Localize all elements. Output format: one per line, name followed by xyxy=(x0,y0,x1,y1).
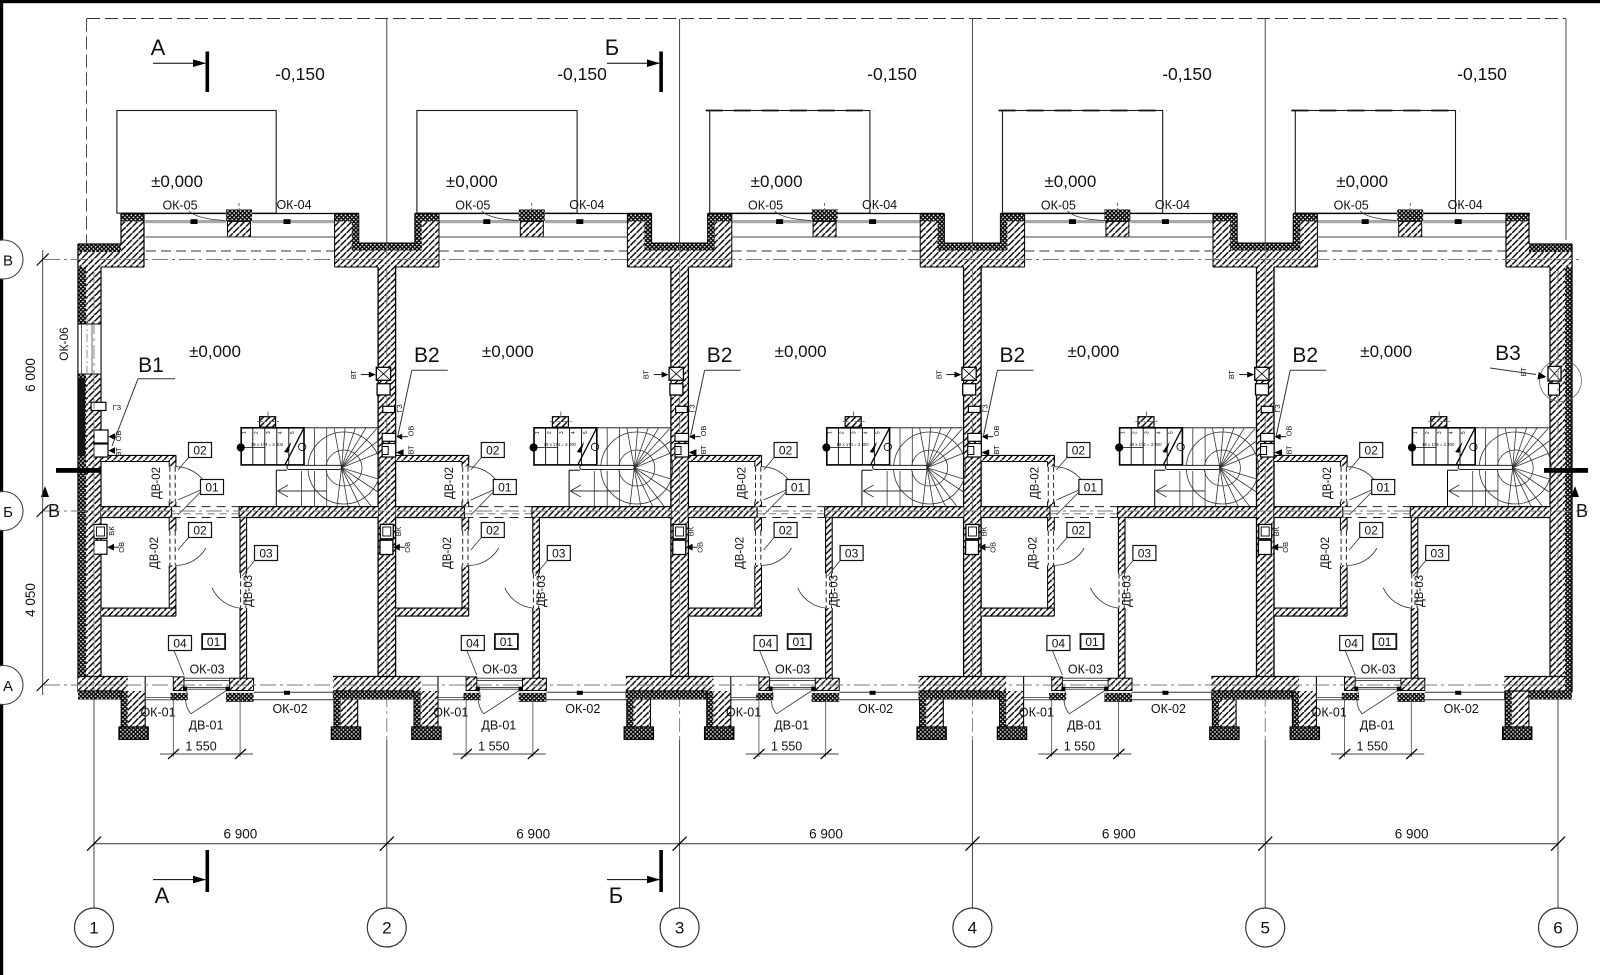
porch outline unit 5 xyxy=(1295,111,1455,214)
room box 01 upper unit 1 xyxy=(201,480,224,495)
middle wall axis Б left part unit 4 xyxy=(981,507,1050,518)
svg-text:01: 01 xyxy=(498,481,512,495)
svg-text:04: 04 xyxy=(1345,637,1359,651)
room box 01 upper unit 4 xyxy=(1079,480,1102,495)
svg-text:А: А xyxy=(3,678,13,695)
door DV-01 unit 2 xyxy=(477,686,523,688)
party wall pilaster court at axis 2 xyxy=(335,222,359,268)
party wall pilaster court at axis 4 xyxy=(920,222,944,268)
vent stack VT axis 5 xyxy=(1255,367,1269,380)
axis line 6 in wall xyxy=(1557,270,1559,694)
south wall insulation unit 1 xyxy=(78,692,121,700)
south wall segment left unit 4 xyxy=(919,677,1007,692)
svg-text:04: 04 xyxy=(466,637,480,651)
middle wall axis Б left part unit 2 xyxy=(396,507,465,518)
svg-text:02: 02 xyxy=(779,444,793,458)
south wall insulation unit 3 xyxy=(626,692,707,700)
svg-text:-0,150: -0,150 xyxy=(1457,64,1507,84)
south wall insulation unit 4 xyxy=(919,692,1000,700)
door DV-02 upper unit 2 xyxy=(462,467,464,502)
wc bottom wall unit 1 xyxy=(101,608,176,616)
room box 03 unit 3 xyxy=(840,546,863,561)
stair upper flight unit 1 xyxy=(241,428,304,465)
grid line 2 lower xyxy=(386,740,388,909)
svg-text:ОК-03: ОК-03 xyxy=(482,663,517,677)
grid line 3 lower xyxy=(679,740,681,909)
svg-text:2: 2 xyxy=(254,431,260,434)
svg-text:ОК-01: ОК-01 xyxy=(1312,706,1347,720)
svg-text:ДВ-02: ДВ-02 xyxy=(1027,537,1039,569)
room box 04 unit 1 xyxy=(169,636,192,651)
door DV-02 upper unit 5 xyxy=(1340,467,1342,502)
left wall vent VK xyxy=(94,524,107,538)
grid line 6 lower xyxy=(1557,694,1559,908)
south block right of door unit 5 xyxy=(1401,678,1425,690)
svg-text:ОК-05: ОК-05 xyxy=(1334,199,1369,213)
north wall outer face line xyxy=(121,213,335,215)
room box 02 upper unit 5 xyxy=(1360,443,1383,458)
vestibule wall line unit 4 xyxy=(1006,675,1051,677)
svg-text:1: 1 xyxy=(242,431,248,434)
eaves dashed line unit 3 xyxy=(732,250,921,252)
middle wall axis Б right part unit 2 xyxy=(532,507,671,518)
svg-text:ОК-05: ОК-05 xyxy=(1041,199,1076,213)
room box 02 upper unit 1 xyxy=(189,443,212,458)
party wall pilaster court at axis 5 xyxy=(1213,222,1237,268)
svg-text:3: 3 xyxy=(559,431,565,434)
party wall stem at axis 5 xyxy=(1257,267,1275,677)
grid line 1 lower xyxy=(93,694,95,908)
svg-text:2: 2 xyxy=(547,431,553,434)
svg-text:±0,000: ±0,000 xyxy=(482,342,534,361)
svg-text:2: 2 xyxy=(1132,431,1138,434)
door DV-01 unit 4 xyxy=(1062,686,1108,688)
room box 04 unit 2 xyxy=(461,636,484,651)
hall wall unit 2 xyxy=(533,518,540,574)
vent GZ axis 3 xyxy=(676,406,688,412)
svg-text:ОК-04: ОК-04 xyxy=(276,198,311,212)
svg-text:ОВ: ОВ xyxy=(696,542,705,553)
vent stack VT axis 4 xyxy=(962,367,976,380)
middle wall axis Б right part unit 4 xyxy=(1118,507,1257,518)
south wall segment left unit 3 xyxy=(626,677,714,692)
svg-text:1 550: 1 550 xyxy=(1357,740,1388,754)
room box 03 unit 5 xyxy=(1426,546,1449,561)
opening in middle wall unit 3 xyxy=(757,506,825,508)
wc partition lower unit 4 xyxy=(1048,518,1055,531)
wc top wall unit 3 xyxy=(688,455,761,461)
svg-text:ОВ: ОВ xyxy=(114,431,123,442)
vent OV axis 2 xyxy=(382,433,396,441)
room box 01 lower unit 4 xyxy=(1081,634,1104,649)
svg-text:2: 2 xyxy=(382,919,391,938)
svg-text:ОК-02: ОК-02 xyxy=(272,702,307,716)
svg-text:ВТ: ВТ xyxy=(699,445,708,455)
vent OV axis 4 xyxy=(968,433,982,441)
porch outline unit 3 xyxy=(710,111,870,214)
svg-text:-0,150: -0,150 xyxy=(867,64,917,84)
svg-text:В: В xyxy=(1576,501,1588,521)
grid circle 5 xyxy=(1246,908,1285,947)
stair lower flight unit 4 xyxy=(1154,470,1156,506)
svg-text:19 x 174 = 3 300: 19 x 174 = 3 300 xyxy=(544,442,577,447)
svg-text:5: 5 xyxy=(876,431,882,434)
svg-text:ОК-03: ОК-03 xyxy=(189,663,224,677)
svg-text:-0,150: -0,150 xyxy=(557,64,607,84)
hall wall unit 1 xyxy=(240,518,247,574)
svg-text:2: 2 xyxy=(840,431,846,434)
axis В line xyxy=(44,259,1580,261)
svg-text:04: 04 xyxy=(173,637,187,651)
north wall inner face line unit 4 xyxy=(1024,236,1214,238)
grid circle 2 xyxy=(367,908,406,947)
svg-text:6 900: 6 900 xyxy=(516,827,550,842)
svg-text:ОК-02: ОК-02 xyxy=(1151,702,1186,716)
svg-text:ОК-01: ОК-01 xyxy=(726,706,761,720)
left wall vents VT OV xyxy=(94,430,108,443)
vent VK axis 4 xyxy=(966,524,979,538)
svg-text:4: 4 xyxy=(1156,431,1162,434)
section mark Б (bottom) xyxy=(659,850,663,892)
left axis circle А xyxy=(0,666,23,705)
middle wall axis Б left part unit 3 xyxy=(688,507,757,518)
vestibule wall line unit 1 xyxy=(128,675,174,677)
svg-text:02: 02 xyxy=(779,524,793,538)
svg-text:04: 04 xyxy=(1052,637,1066,651)
wc partition upper unit 3 xyxy=(755,462,762,467)
vent VK axis 3 xyxy=(673,524,686,538)
north wall inner face line unit 5 xyxy=(1316,236,1506,238)
svg-text:ГЗ: ГЗ xyxy=(688,404,697,413)
wc bottom wall unit 2 xyxy=(396,608,469,616)
svg-text:ОК-03: ОК-03 xyxy=(775,663,810,677)
room box 02 lower unit 5 xyxy=(1360,523,1383,538)
stair chimney unit 1 xyxy=(260,417,276,428)
svg-text:ДВ-02: ДВ-02 xyxy=(442,537,454,569)
svg-text:5: 5 xyxy=(1461,431,1467,434)
window OK-03 unit 3 xyxy=(770,677,816,679)
wc bottom wall unit 4 xyxy=(981,608,1054,616)
entry pier unit 5 xyxy=(1345,677,1356,691)
window pier unit 3 xyxy=(812,209,838,221)
grid line 4 lower xyxy=(971,740,973,909)
door DV-02 upper unit 1 xyxy=(169,467,171,502)
svg-text:ДВ-01: ДВ-01 xyxy=(189,719,224,733)
svg-text:03: 03 xyxy=(845,547,859,561)
eaves dashed line unit 1 xyxy=(146,250,335,252)
entry insulation pads unit 5 xyxy=(1342,693,1359,700)
svg-text:19 x 174 = 3 300: 19 x 174 = 3 300 xyxy=(837,442,870,447)
entry pier unit 4 xyxy=(1052,677,1063,691)
room box 01 lower unit 2 xyxy=(495,634,518,649)
door DV-03 unit 5 xyxy=(1411,573,1413,608)
right wall vent VT xyxy=(1548,366,1561,381)
bottom dim tick 1 xyxy=(87,837,101,851)
entry insulation pads unit 4 xyxy=(1049,693,1066,700)
bottom dim tick 2 xyxy=(380,837,394,851)
lot divider at axis 5 xyxy=(1264,19,1266,243)
bottom dim tick 4 xyxy=(965,837,979,851)
vent GZ axis 4 xyxy=(968,406,980,412)
vent VT2 axis 4 xyxy=(968,444,982,458)
left dim tick y511 xyxy=(37,505,49,517)
svg-text:ОВ: ОВ xyxy=(403,542,412,553)
stair chimney unit 2 xyxy=(552,417,568,428)
porch stub right unit 1 xyxy=(334,691,341,727)
terrace dashed edge unit 5 xyxy=(1291,110,1459,112)
right corner assembly xyxy=(1564,244,1572,692)
svg-text:В: В xyxy=(3,253,13,270)
svg-text:ОК-03: ОК-03 xyxy=(1068,663,1103,677)
svg-text:ОВ: ОВ xyxy=(117,542,126,553)
svg-text:ВТ: ВТ xyxy=(1285,445,1294,455)
grid line 5 lower xyxy=(1264,740,1266,909)
svg-text:В2: В2 xyxy=(1292,344,1318,367)
svg-text:01: 01 xyxy=(791,481,805,495)
axis line 1 in wall xyxy=(93,270,95,694)
svg-text:ДВ-02: ДВ-02 xyxy=(1320,537,1332,569)
svg-text:ГЗ: ГЗ xyxy=(113,403,122,412)
svg-text:01: 01 xyxy=(1084,481,1098,495)
svg-text:ОК-04: ОК-04 xyxy=(1448,198,1483,212)
svg-text:4: 4 xyxy=(1449,431,1455,434)
svg-text:5: 5 xyxy=(1168,431,1174,434)
svg-text:В2: В2 xyxy=(707,344,733,367)
lot divider at axis 2 xyxy=(386,19,388,243)
lot divider at axis 3 xyxy=(679,19,681,243)
svg-text:4: 4 xyxy=(571,431,577,434)
entry insulation pads unit 1 xyxy=(171,693,188,700)
svg-text:3: 3 xyxy=(1437,431,1443,434)
wc top wall unit 4 xyxy=(981,455,1054,461)
svg-text:02: 02 xyxy=(1365,444,1379,458)
svg-text:ДВ-02: ДВ-02 xyxy=(735,537,747,569)
grid circle 3 xyxy=(660,908,699,947)
svg-text:±0,000: ±0,000 xyxy=(1336,172,1388,191)
svg-text:ВК: ВК xyxy=(394,526,403,536)
svg-text:01: 01 xyxy=(205,481,219,495)
entry insulation pads unit 2 xyxy=(463,693,480,700)
dim 1550 unit 2 xyxy=(465,694,467,757)
svg-text:ОВ: ОВ xyxy=(992,426,1001,437)
window pier unit 4 xyxy=(1104,209,1130,221)
svg-text:±0,000: ±0,000 xyxy=(751,172,803,191)
window OK-02 unit 3 xyxy=(839,691,919,693)
window pier unit 2 xyxy=(519,209,545,221)
svg-text:01: 01 xyxy=(1378,635,1392,649)
svg-text:ОК-04: ОК-04 xyxy=(569,198,604,212)
room box 02 upper unit 4 xyxy=(1067,443,1090,458)
axis line 3 in wall xyxy=(679,243,681,739)
svg-text:ДВ-01: ДВ-01 xyxy=(774,719,809,733)
wc partition lower unit 3 xyxy=(755,518,762,531)
svg-text:ОВ: ОВ xyxy=(406,426,415,437)
svg-text:01: 01 xyxy=(793,635,807,649)
room box 02 upper unit 3 xyxy=(774,443,797,458)
south block right of door unit 4 xyxy=(1108,678,1132,690)
left dim tick y685 xyxy=(37,679,49,691)
svg-text:ДВ-01: ДВ-01 xyxy=(481,719,516,733)
svg-text:04: 04 xyxy=(759,637,773,651)
svg-text:6 900: 6 900 xyxy=(1102,827,1136,842)
grid circle 6 xyxy=(1539,908,1578,947)
svg-text:1 550: 1 550 xyxy=(771,740,802,754)
wc top wall unit 1 xyxy=(101,455,176,461)
bottom dim tick 5 xyxy=(1258,837,1272,851)
window OK-02 unit 1 xyxy=(254,691,334,693)
svg-text:ГЗ: ГЗ xyxy=(980,404,989,413)
south wall insulation unit 2 xyxy=(333,692,414,700)
stair lower flight unit 5 xyxy=(1447,470,1449,506)
window OK-01 unit 5 xyxy=(1316,697,1344,699)
section B-B mark left xyxy=(56,468,101,473)
porch outline unit 1 xyxy=(117,111,276,214)
door DV-01 unit 1 xyxy=(184,686,230,688)
axis line 4 in wall xyxy=(971,243,973,739)
stair winder fan unit 3 xyxy=(912,450,948,486)
opening in middle wall unit 1 xyxy=(172,506,240,508)
svg-text:03: 03 xyxy=(1431,547,1445,561)
svg-text:±0,000: ±0,000 xyxy=(1067,342,1119,361)
svg-text:ВТ: ВТ xyxy=(934,370,943,380)
stair upper flight unit 2 xyxy=(534,428,597,465)
room box 03 unit 4 xyxy=(1133,546,1156,561)
door DV-03 unit 2 xyxy=(532,573,534,608)
wc partition upper unit 5 xyxy=(1340,462,1347,467)
stair lower flight unit 3 xyxy=(861,470,863,506)
party wall stem at axis 3 xyxy=(671,267,689,677)
svg-text:ОК-04: ОК-04 xyxy=(862,198,897,212)
vestibule wall line unit 2 xyxy=(421,675,467,677)
wc bottom wall unit 3 xyxy=(688,608,761,616)
stair chimney unit 5 xyxy=(1431,417,1447,428)
vent VT2 axis 3 xyxy=(675,444,689,458)
middle wall axis Б left part unit 1 xyxy=(101,507,172,518)
wc partition upper unit 4 xyxy=(1048,462,1055,467)
door DV-02 lower unit 1 xyxy=(169,531,171,566)
door DV-02 upper unit 4 xyxy=(1047,467,1049,502)
svg-text:-0,150: -0,150 xyxy=(275,64,325,84)
stair handrail unit 2 xyxy=(580,465,635,469)
room box 04 unit 3 xyxy=(754,636,777,651)
svg-text:ДВ-03: ДВ-03 xyxy=(829,575,841,607)
stair winder fan unit 1 xyxy=(326,450,362,486)
svg-text:ВТ: ВТ xyxy=(1227,370,1236,380)
axis line 5 in wall xyxy=(1264,243,1266,739)
left axis circle Б xyxy=(0,492,23,531)
wc partition lower unit 5 xyxy=(1340,518,1347,531)
svg-text:ГЗ: ГЗ xyxy=(395,404,404,413)
svg-text:±0,000: ±0,000 xyxy=(189,342,241,361)
eaves dashed line unit 2 xyxy=(439,250,628,252)
terrace dashed edge unit 4 xyxy=(999,110,1167,112)
svg-text:ДВ-03: ДВ-03 xyxy=(1121,575,1133,607)
stair handrail unit 4 xyxy=(1165,465,1220,469)
svg-text:Б: Б xyxy=(605,35,619,60)
room box 04 unit 4 xyxy=(1047,636,1070,651)
svg-text:ОК-05: ОК-05 xyxy=(162,199,197,213)
svg-text:ОВ: ОВ xyxy=(1285,426,1294,437)
svg-text:01: 01 xyxy=(1085,635,1099,649)
vent OV axis 5 xyxy=(1261,433,1275,441)
svg-text:ОК-03: ОК-03 xyxy=(1361,663,1396,677)
svg-text:ДВ-01: ДВ-01 xyxy=(1360,719,1395,733)
window pier unit 5 xyxy=(1397,209,1423,221)
stair upper flight unit 4 xyxy=(1120,428,1183,465)
porch stub left unit 3 xyxy=(707,691,714,727)
svg-text:±0,000: ±0,000 xyxy=(151,172,203,191)
door DV-03 unit 4 xyxy=(1118,573,1120,608)
middle wall axis Б left part unit 5 xyxy=(1274,507,1343,518)
svg-text:ГЗ: ГЗ xyxy=(1273,404,1282,413)
opening in middle wall unit 4 xyxy=(1050,506,1118,508)
door DV-02 lower unit 2 xyxy=(462,531,464,566)
svg-text:19 x 174 = 3 300: 19 x 174 = 3 300 xyxy=(1129,442,1162,447)
svg-text:4 050: 4 050 xyxy=(23,583,38,617)
stair upper flight unit 5 xyxy=(1412,428,1475,465)
window OK-02 unit 4 xyxy=(1132,691,1212,693)
door DV-01 unit 3 xyxy=(770,686,816,688)
svg-text:4: 4 xyxy=(864,431,870,434)
svg-text:±0,000: ±0,000 xyxy=(1044,172,1096,191)
svg-text:4: 4 xyxy=(278,431,284,434)
vent OV2 axis 3 xyxy=(673,540,686,554)
left axis circle В xyxy=(0,240,23,279)
svg-text:1: 1 xyxy=(89,919,98,938)
dim 1550 unit 5 xyxy=(1344,694,1346,757)
north wall inner face line unit 2 xyxy=(438,236,628,238)
stair winder fan unit 5 xyxy=(1497,450,1533,486)
stair winder fan unit 2 xyxy=(619,450,655,486)
vent OV2 axis 5 xyxy=(1258,540,1271,554)
room box 03 unit 2 xyxy=(547,546,570,561)
south block right of door unit 1 xyxy=(230,678,254,690)
entry pier unit 1 xyxy=(173,677,184,691)
svg-text:ОВ: ОВ xyxy=(1281,542,1290,553)
porch outline unit 4 xyxy=(1003,111,1163,214)
svg-text:02: 02 xyxy=(193,524,207,538)
door DV-02 lower unit 4 xyxy=(1047,531,1049,566)
svg-text:2: 2 xyxy=(1425,431,1431,434)
svg-text:ДВ-03: ДВ-03 xyxy=(536,575,548,607)
north wall inner face line unit 3 xyxy=(731,236,921,238)
terrace dashed edge unit 3 xyxy=(706,110,874,112)
party wall stem at axis 4 xyxy=(964,267,982,677)
vent VK axis 5 xyxy=(1259,524,1272,538)
window band OK-05/OK-04 glazing unit 4 xyxy=(1024,220,1105,223)
vestibule wall line unit 5 xyxy=(1299,675,1345,677)
svg-text:ОК-05: ОК-05 xyxy=(455,199,490,213)
south wall right end segment xyxy=(1504,677,1565,692)
section B-B mark right xyxy=(1544,468,1588,473)
middle wall axis Б right part unit 5 xyxy=(1410,507,1550,518)
svg-text:19 x 174 = 3 300: 19 x 174 = 3 300 xyxy=(1422,442,1455,447)
room box 01 lower unit 3 xyxy=(788,634,811,649)
section mark A (bottom) xyxy=(206,850,210,892)
svg-text:ОК-02: ОК-02 xyxy=(1444,702,1479,716)
svg-text:ОК-02: ОК-02 xyxy=(565,702,600,716)
bottom dimension line xyxy=(94,843,1558,845)
bottom dim tick 6 xyxy=(1551,837,1565,851)
vent stack VT axis 3 xyxy=(669,367,683,380)
room box 03 unit 1 xyxy=(255,546,278,561)
svg-text:±0,000: ±0,000 xyxy=(775,342,827,361)
svg-text:В1: В1 xyxy=(138,354,164,377)
middle wall axis Б right part unit 1 xyxy=(239,507,378,518)
svg-text:1: 1 xyxy=(1120,431,1126,434)
dim 1550 unit 1 xyxy=(172,694,174,757)
svg-text:ДВ-02: ДВ-02 xyxy=(1322,467,1334,499)
